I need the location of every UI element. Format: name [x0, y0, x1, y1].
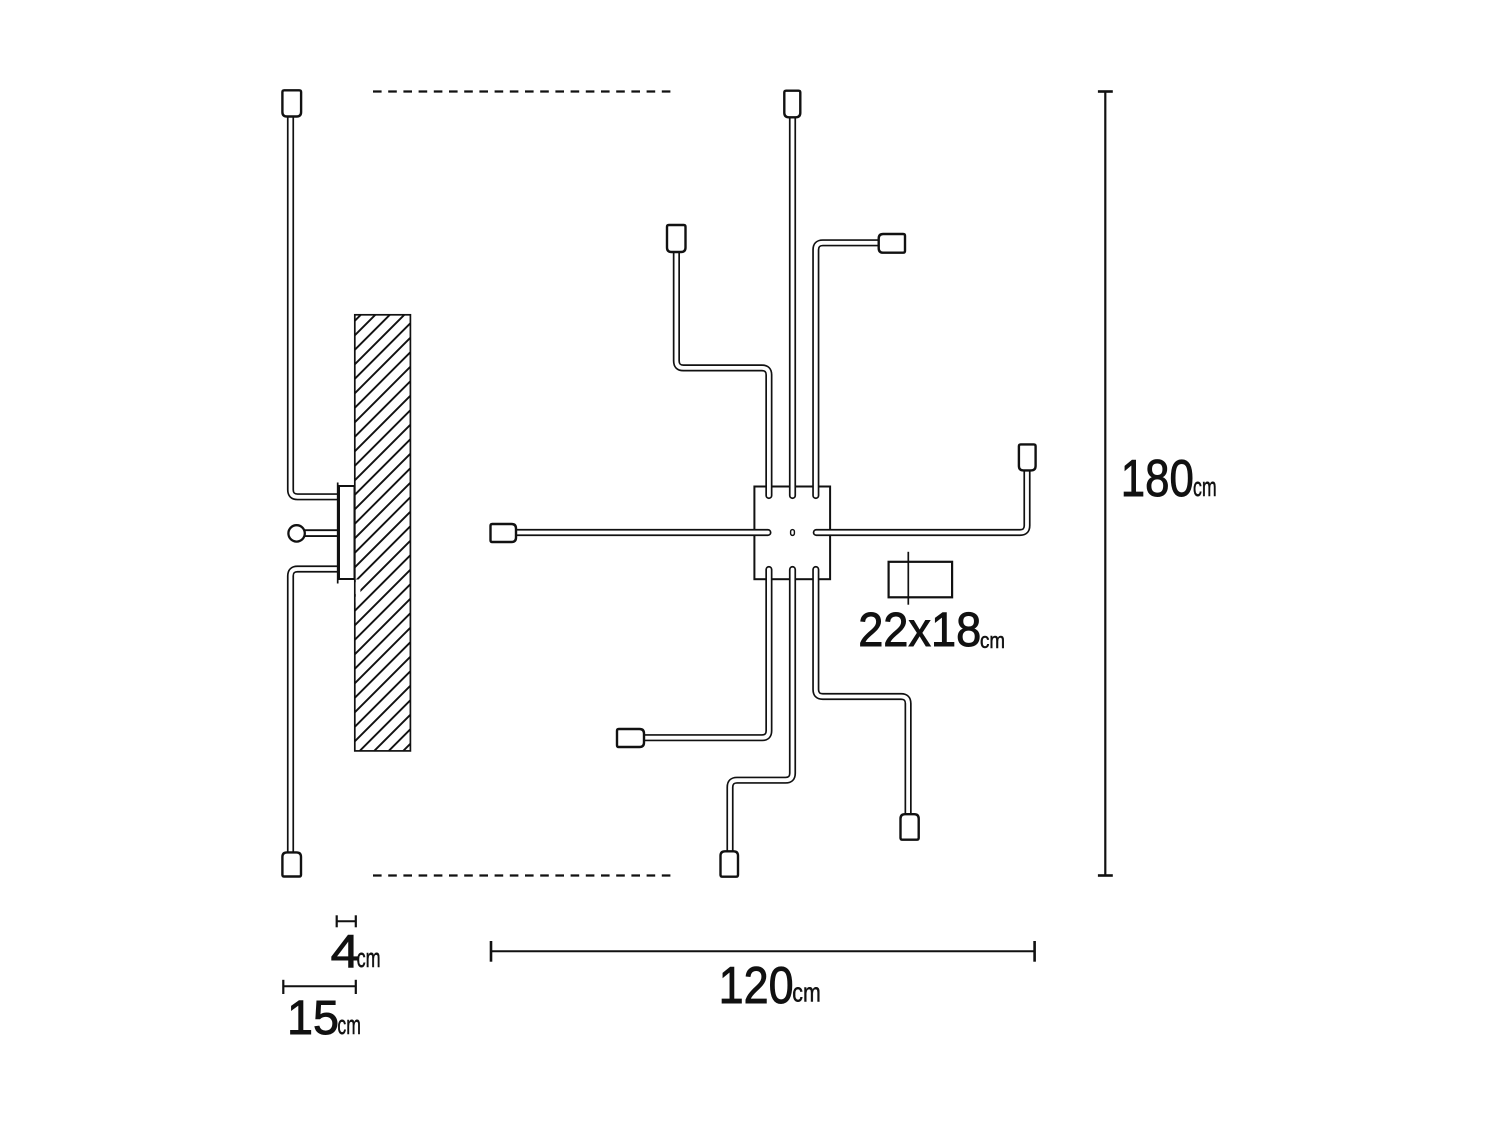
svg-text:4: 4	[331, 925, 360, 977]
svg-text:22x18: 22x18	[858, 604, 981, 657]
svg-text:180: 180	[1121, 450, 1194, 508]
svg-text:120: 120	[719, 957, 794, 1015]
svg-text:cm: cm	[1193, 472, 1217, 502]
svg-text:15: 15	[287, 992, 339, 1045]
svg-text:cm: cm	[337, 1010, 361, 1040]
svg-text:cm: cm	[357, 943, 381, 973]
svg-text:cm: cm	[980, 628, 1005, 653]
svg-text:cm: cm	[792, 977, 821, 1007]
